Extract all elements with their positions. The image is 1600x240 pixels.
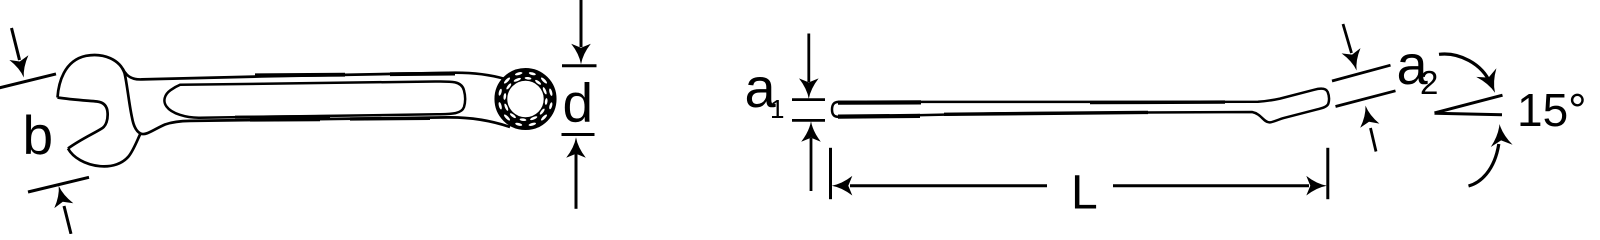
15 degree wedge top line xyxy=(1435,95,1503,113)
dimension d: top tick xyxy=(562,64,597,67)
dimension a2: up arrow xyxy=(1360,106,1379,128)
wrench top view: open jaw mouth xyxy=(58,98,108,149)
dimension L: left tick xyxy=(829,148,832,199)
side view: thick jaw-end bottom edge xyxy=(838,114,920,119)
ring end: 12-point profile band xyxy=(502,75,550,123)
side view: thick jaw-end top edge xyxy=(838,100,921,104)
shank top edge thick patches xyxy=(255,73,345,77)
wrench side view: bar outline xyxy=(832,89,1329,123)
svg-text:L: L xyxy=(1071,166,1098,219)
shank bottom edge thick patches xyxy=(250,118,320,122)
dimension a2: lower tick xyxy=(1336,91,1396,107)
dimension a1: top tick xyxy=(792,98,825,101)
dimension a1: bottom tick xyxy=(792,119,825,122)
svg-text:15°: 15° xyxy=(1517,84,1587,136)
dimension b: upper arrow xyxy=(12,28,20,60)
dimension a1: down arrow xyxy=(807,34,810,83)
svg-text:2: 2 xyxy=(1420,64,1438,101)
dimension L: right tick xyxy=(1326,148,1329,199)
wrench top view: head bottom lobe xyxy=(68,134,141,167)
wrench top view: neck top fillet and handle top edge xyxy=(123,69,506,80)
side view: shank bottom thick patch xyxy=(944,112,1148,114)
dimension L: right segment with arrow xyxy=(1113,184,1309,187)
wrench top view: open-end head outline xyxy=(58,55,141,133)
svg-text:b: b xyxy=(23,104,54,166)
dimension b: upper tick xyxy=(0,74,56,88)
wrench top view: neck bottom fillet and handle bottom edge xyxy=(141,117,511,134)
dimension a2: down arrow xyxy=(1343,24,1352,53)
15 degree bottom curved arrow xyxy=(1469,144,1499,186)
dimension d: bottom tick xyxy=(562,133,595,136)
dimension b: lower tick xyxy=(28,177,89,192)
svg-text:1: 1 xyxy=(770,94,784,124)
dimension b: lower arrow xyxy=(64,206,71,234)
15 degree top curved arrow xyxy=(1439,54,1491,83)
15 degree wedge bottom line xyxy=(1435,113,1503,115)
ring end: outer circle xyxy=(496,69,555,128)
ring end: 12-point white notches xyxy=(498,71,553,126)
svg-text:d: d xyxy=(563,72,594,134)
dimension L: left segment with arrow xyxy=(850,184,1047,187)
dimension d: bottom arrow xyxy=(566,137,586,158)
wrench top view: recessed oval panel on shank xyxy=(164,81,465,117)
side view: shank top thick patch xyxy=(1090,100,1225,104)
oval panel bottom edge thick patch xyxy=(235,115,330,119)
dimension a1: up arrow xyxy=(801,121,821,142)
dimension a2: upper tick xyxy=(1332,65,1391,81)
dimension d: top arrow xyxy=(580,0,583,47)
